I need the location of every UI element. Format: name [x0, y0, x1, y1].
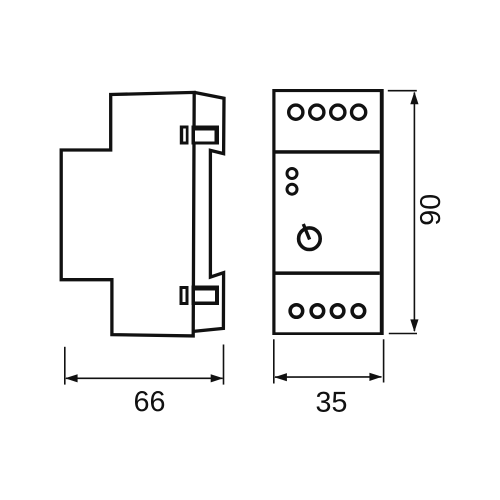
dimension 35: left arrowhead: [274, 373, 287, 381]
dimension 90: bottom extension line: [389, 333, 417, 335]
front view: knob pointer: [303, 224, 309, 240]
dimension 35: value label: [317, 392, 347, 412]
dimension 66: dimension line: [66, 377, 223, 379]
dimension 35: right arrowhead: [369, 373, 382, 381]
side view: top terminal narrow slot: [180, 126, 189, 145]
side view: front body outline: [61, 92, 194, 336]
front view: top terminal screws: [289, 105, 303, 119]
dimension 90: bottom arrowhead: [410, 319, 418, 332]
front view: enclosure outline: [272, 89, 383, 335]
front view: indicator LEDs: [287, 169, 297, 179]
dimension 66: value label: [135, 391, 164, 411]
front view: bottom terminal screws: [290, 305, 303, 318]
side view: rear DIN-rail part outline: [193, 92, 224, 331]
dimension 90: top extension line: [388, 90, 417, 92]
dimension 66: left arrowhead: [65, 374, 78, 382]
dimension 90: dimension line: [413, 93, 415, 332]
dimension 35: right extension line: [383, 339, 385, 382]
side view: top terminal block: [192, 126, 220, 145]
front view: upper divider line: [276, 150, 380, 154]
side view: bottom terminal block: [192, 286, 220, 306]
front view: lower divider line: [276, 271, 380, 275]
dimension 66: right arrowhead: [211, 374, 224, 382]
dimension 90: top arrowhead: [410, 92, 418, 105]
dimension 66: right extension line: [223, 345, 225, 385]
side view: bottom terminal narrow slot: [180, 286, 189, 305]
dimension 90: value label: [420, 195, 440, 224]
front view: adjustment knob: [299, 228, 321, 250]
dimension 35: dimension line: [275, 376, 382, 378]
dimension 66: left extension line: [64, 347, 66, 385]
dimension 35: left extension line: [273, 339, 275, 383]
